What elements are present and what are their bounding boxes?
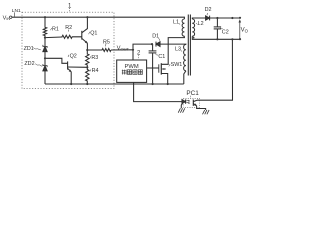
label 制御回路 pseudo-glyphs bbox=[122, 70, 143, 75]
svg-text:L3: L3 bbox=[175, 46, 181, 52]
wire Vout node up to D1 node bbox=[133, 44, 152, 50]
capacitor C1 bbox=[149, 44, 157, 84]
svg-text:ZD1: ZD1 bbox=[24, 46, 34, 52]
resistor R5 bbox=[87, 49, 111, 52]
svg-text:D1: D1 bbox=[152, 33, 159, 39]
wire L3 bottom to ground rail bbox=[184, 71, 186, 84]
junction dots bbox=[44, 16, 241, 85]
PC1 emitter to chassis ground bbox=[197, 106, 206, 110]
wire output minus down to PC1 bbox=[197, 39, 233, 100]
resistor R2 bbox=[62, 35, 82, 38]
ground chassis left bbox=[178, 108, 185, 112]
node 2 label dashed leader bbox=[138, 55, 140, 59]
svg-text:D2: D2 bbox=[205, 7, 212, 13]
inductor L3 auxiliary winding bbox=[184, 45, 186, 71]
svg-text:C2: C2 bbox=[222, 29, 229, 35]
wire PWM gate drive to SW1 bbox=[147, 67, 159, 69]
wire primary ground rail bbox=[45, 83, 184, 85]
inductor L1 transformer primary winding bbox=[182, 19, 184, 36]
PC1 coupling arrows bbox=[186, 99, 189, 102]
wire Q2 base route from zener midpoint bbox=[45, 58, 68, 63]
transistor Q2 bbox=[68, 61, 88, 84]
PC1 LED bbox=[182, 100, 185, 104]
capacitor C2 bbox=[214, 18, 221, 39]
node 1 label dashed leader bbox=[69, 8, 71, 12]
wire L2 bottom output return bbox=[192, 36, 240, 39]
wire PWM feedback pin down to PC1 LED bbox=[134, 82, 182, 101]
svg-text:R1: R1 bbox=[52, 26, 59, 32]
transistor Q1 bbox=[82, 17, 88, 50]
node winding polarity dot L2 bbox=[193, 37, 195, 39]
PC1 label dashed leader bbox=[189, 96, 191, 98]
svg-text:L2: L2 bbox=[198, 21, 204, 27]
svg-text:R4: R4 bbox=[92, 68, 99, 74]
wire Vout node down to PWM box pin bbox=[132, 50, 134, 60]
svg-text:Q2: Q2 bbox=[70, 53, 77, 59]
resistor R4 bbox=[86, 67, 89, 84]
svg-text:R3: R3 bbox=[91, 55, 98, 61]
PWM control circuit box U2 bbox=[117, 60, 147, 82]
wire node1 to R2 (Q1 base line) bbox=[45, 36, 62, 39]
diode D1 bbox=[156, 42, 187, 47]
wire L2 top to D2 bbox=[192, 18, 205, 19]
svg-text:PC1: PC1 bbox=[186, 90, 199, 97]
svg-text:VO: VO bbox=[241, 28, 249, 34]
ground chassis right bbox=[203, 110, 210, 114]
svg-text:L1: L1 bbox=[173, 19, 179, 25]
svg-text:R2: R2 bbox=[65, 25, 72, 31]
zener diode ZD1 bbox=[43, 38, 47, 59]
node LN1 label leader bbox=[14, 12, 16, 16]
zener diode ZD2 bbox=[43, 58, 47, 84]
svg-text:Q1: Q1 bbox=[90, 30, 97, 36]
PC1 LED cathode to chassis ground bbox=[181, 104, 182, 109]
svg-text:VIN: VIN bbox=[3, 15, 11, 21]
svg-text:R5: R5 bbox=[103, 39, 110, 45]
svg-text:SW1: SW1 bbox=[171, 62, 183, 68]
Vo voltage arrow bbox=[239, 19, 242, 39]
resistor R3 bbox=[86, 50, 89, 67]
resistor R1 bbox=[43, 17, 46, 37]
photocoupler PC1 bbox=[181, 96, 205, 110]
transistor SW1 (MOSFET) bbox=[159, 36, 185, 84]
transformer core bbox=[187, 15, 189, 76]
wire R5 to Vout node bbox=[111, 49, 133, 51]
diode D2 bbox=[206, 16, 240, 21]
svg-text:C1: C1 bbox=[158, 54, 165, 60]
node Vin input terminal bbox=[10, 16, 12, 18]
svg-text:VOUT: VOUT bbox=[117, 45, 130, 51]
inductor L2 transformer secondary winding bbox=[192, 19, 194, 36]
PC1 dashed box bbox=[183, 98, 199, 107]
dashed box 1 (startup circuit) bbox=[22, 12, 114, 88]
svg-text:ZD2: ZD2 bbox=[24, 61, 34, 67]
label leader slashes bbox=[50, 28, 51, 30]
svg-text:LN1: LN1 bbox=[12, 8, 21, 14]
svg-text:1: 1 bbox=[68, 4, 72, 10]
wire top rail LN1 from Vin to transformer L1 bbox=[12, 17, 185, 19]
svg-text:PWM: PWM bbox=[125, 64, 139, 70]
svg-text:2: 2 bbox=[137, 50, 141, 56]
PC1 phototransistor bbox=[192, 100, 194, 106]
